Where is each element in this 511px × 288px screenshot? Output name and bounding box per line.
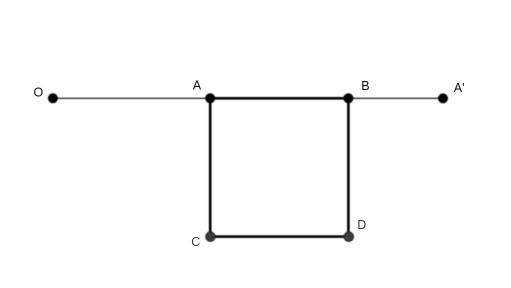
svg-text:A': A'	[454, 81, 465, 95]
svg-text:D: D	[357, 218, 366, 232]
svg-text:B: B	[361, 79, 369, 93]
svg-text:A: A	[193, 79, 202, 93]
svg-text:O: O	[34, 86, 44, 100]
svg-text:C: C	[191, 235, 200, 249]
